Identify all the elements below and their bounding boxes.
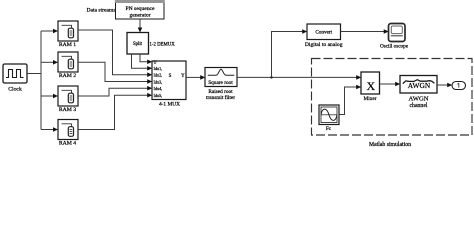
block Fc sine oscillator xyxy=(319,105,339,132)
wire RAM 3 to MUX Idx4 xyxy=(78,86,152,96)
block Square root raised cosine transmit filter xyxy=(205,68,237,101)
svg-text:RAM 2: RAM 2 xyxy=(59,73,76,79)
svg-text:X: X xyxy=(366,79,375,93)
svg-text:Fc: Fc xyxy=(326,126,332,132)
svg-text:Data streams: Data streams xyxy=(86,8,115,14)
block Mixer xyxy=(361,72,380,102)
svg-text:4-1 MUX: 4-1 MUX xyxy=(159,102,180,108)
svg-text:U: U xyxy=(154,60,157,65)
wire branch to RAM 4 xyxy=(41,127,58,132)
svg-text:Clock: Clock xyxy=(8,86,22,92)
block Split xyxy=(127,33,149,55)
block RAM 2 xyxy=(58,52,78,79)
block RAM 4 xyxy=(58,120,78,147)
node branch junction xyxy=(270,76,272,78)
svg-text:RAM 3: RAM 3 xyxy=(59,107,76,113)
wire Mixer to AWGN channel xyxy=(380,82,401,87)
svg-text:Split: Split xyxy=(133,42,143,47)
svg-text:Mixer: Mixer xyxy=(364,96,377,102)
wire MUX Y to transmit filter xyxy=(186,75,205,80)
svg-text:RAM 1: RAM 1 xyxy=(59,42,76,48)
block RAM 1 xyxy=(58,21,78,48)
wire RAM 4 to MUX Idx5 xyxy=(78,93,152,130)
svg-text:1-2 DEMUX: 1-2 DEMUX xyxy=(150,43,176,48)
wire filter to Mixer (main signal) xyxy=(237,75,361,80)
wire branch to RAM 2 xyxy=(41,60,58,65)
boundary Matlab simulation dashed box xyxy=(312,59,473,148)
wire PN generator to Split xyxy=(138,19,143,33)
svg-text:transmit filter: transmit filter xyxy=(206,94,235,101)
svg-text:generator: generator xyxy=(129,12,150,18)
wire branch to RAM 3 xyxy=(41,94,58,99)
wire Split out2 to MUX U xyxy=(140,54,152,64)
svg-text:Matlab simulation: Matlab simulation xyxy=(369,142,411,148)
block 4-1 MUX xyxy=(152,60,186,108)
outport 1 xyxy=(452,82,466,90)
wire Split out1 to MUX Idx1 xyxy=(132,54,153,71)
block AWGN channel xyxy=(400,76,437,109)
wire clock output to bus xyxy=(27,73,41,75)
wire branch up to Convert xyxy=(272,29,308,77)
svg-text:channel: channel xyxy=(409,103,427,109)
block Convert xyxy=(305,24,343,48)
svg-text:PN sequence: PN sequence xyxy=(125,6,155,12)
svg-text:AWGN: AWGN xyxy=(409,95,429,102)
block Oscilloscope xyxy=(380,24,409,50)
wire Convert to Oscilloscope xyxy=(341,29,389,34)
block RAM 3 xyxy=(58,86,78,113)
svg-text:Digital to analog: Digital to analog xyxy=(305,42,343,48)
block Clock xyxy=(3,64,27,92)
block PN sequence generator xyxy=(115,0,165,19)
wire RAM 2 to MUX Idx3 xyxy=(78,62,152,84)
wire AWGN to outport xyxy=(437,83,452,88)
svg-text:Square root: Square root xyxy=(208,80,233,86)
svg-text:AWGN: AWGN xyxy=(408,81,431,90)
svg-text:Oscill oscope: Oscill oscope xyxy=(380,44,409,50)
wire branch to RAM 1 xyxy=(41,29,58,34)
svg-text:Convert: Convert xyxy=(315,30,332,36)
svg-text:RAM 4: RAM 4 xyxy=(59,140,76,146)
svg-text:Y: Y xyxy=(181,74,185,79)
wire Fc to Mixer xyxy=(339,85,361,115)
svg-text:S: S xyxy=(169,74,172,79)
wire bus vertical xyxy=(40,31,42,130)
wire RAM 1 to MUX Idx2 xyxy=(78,30,152,77)
